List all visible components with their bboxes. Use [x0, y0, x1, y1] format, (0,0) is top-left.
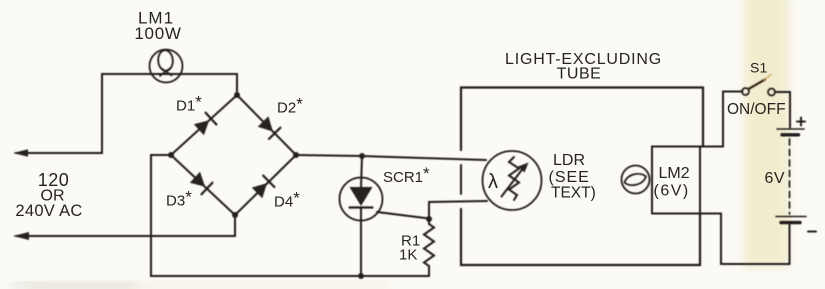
LDR zigzag: [509, 157, 519, 200]
svg-text:λ: λ: [488, 171, 498, 193]
svg-text:LM2: LM2: [659, 165, 690, 182]
switch S1 blade: [749, 80, 766, 90]
battery cell 2 long plate: [776, 216, 806, 218]
bridge: node left: [168, 152, 174, 158]
diode D1 triangle: [194, 120, 209, 135]
battery cell 1 long plate (+): [777, 128, 804, 130]
LDR circle: [483, 151, 542, 210]
bridge: node top: [234, 92, 240, 98]
box: light-excluding tube: [461, 88, 703, 266]
bridge: node bottom: [232, 212, 238, 218]
wire: right node to SCR anode junction and LDR: [296, 155, 486, 160]
wire: bridge edge left-bottom: [171, 155, 235, 215]
diode D2 triangle: [258, 116, 273, 131]
arrowhead lower AC input: [13, 232, 29, 240]
arrowhead upper AC input: [13, 149, 28, 157]
LM2 socket right edge: [699, 147, 701, 214]
wire: AC input lower with arrow: [16, 215, 235, 236]
diode D3 cathode bar: [202, 183, 213, 195]
SCR1 cathode lead: [360, 208, 362, 276]
svg-text:(SEE: (SEE: [549, 169, 590, 186]
lamp LM1 filament loop: [157, 50, 173, 72]
LDR arrow: [502, 167, 525, 197]
lamp LM1 filament curl: [160, 68, 172, 76]
bridge: node right: [293, 152, 299, 158]
junction dot SCR anode: [359, 153, 365, 159]
diode D4 cathode bar: [263, 176, 274, 187]
wire: AC input upper with arrow: [16, 74, 237, 153]
junction dot SCR cathode at bottom rail: [358, 273, 364, 279]
scan yellow streak bottom: [30, 283, 390, 289]
scan yellow band right side: [744, 0, 789, 268]
SCR1 cathode bar: [350, 206, 373, 208]
battery cell 2 short plate (-): [781, 221, 800, 224]
diode D3 triangle: [190, 172, 205, 187]
SCR1 gate lead: [377, 212, 429, 219]
svg-text:S: S: [750, 60, 759, 76]
lamp LM2 filament loop: [625, 174, 647, 185]
svg-text:TUBE: TUBE: [557, 66, 602, 83]
wire: gate node up to LDR lower wire: [429, 201, 487, 219]
diode D1 cathode bar: [206, 113, 217, 125]
svg-text:TEXT): TEXT): [551, 185, 596, 202]
svg-text:(6V): (6V): [654, 183, 690, 200]
SCR1 triangle: [350, 187, 373, 206]
resistor R1 zigzag: [424, 219, 434, 276]
lamp LM2 circle: [622, 166, 650, 194]
wire: bridge edge top-left: [171, 95, 237, 155]
battery minus sign: [808, 231, 816, 233]
battery plus sign: [797, 118, 805, 126]
wire: left node to bottom rail: [151, 155, 429, 276]
switch S1 left contact: [742, 88, 749, 95]
svg-text:6V: 6V: [765, 170, 786, 187]
diode D2 cathode bar: [269, 128, 280, 139]
wire: battery - to bottom: [789, 225, 791, 265]
wire: switch to battery +: [775, 92, 790, 128]
lamp LM1 circle: [150, 50, 183, 83]
wire: bridge edge bottom-right: [235, 155, 296, 215]
svg-text:1K: 1K: [399, 247, 417, 264]
battery cell 1 short plate: [782, 133, 799, 136]
LM2 socket rectangle: [652, 92, 743, 214]
svg-text:ON/OFF: ON/OFF: [727, 101, 786, 118]
scan gray smudge bottom left: [12, 283, 137, 287]
svg-text:100W: 100W: [134, 24, 181, 43]
diode D4 triangle: [252, 183, 267, 198]
battery dashed middle: [789, 139, 791, 214]
svg-text:LDR: LDR: [553, 152, 585, 169]
SCR1 circle: [340, 178, 383, 221]
wire: bridge edge top-right: [237, 95, 296, 155]
svg-text:240V AC: 240V AC: [15, 202, 82, 220]
switch blade faint tip: [764, 75, 771, 81]
wire: LM2 socket bottom to battery minus: [652, 214, 790, 265]
junction dot gate node: [426, 216, 432, 222]
switch S1 right contact: [768, 89, 775, 96]
svg-text:1: 1: [760, 60, 768, 76]
SCR1 vertical anode lead: [361, 156, 362, 188]
LDR arrowhead: [518, 163, 529, 173]
